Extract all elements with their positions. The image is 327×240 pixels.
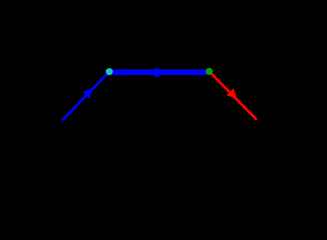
arrowhead on incoming blue segment [82,88,93,99]
node left (cyan dot) [106,68,113,75]
wire: outgoing red diagonal segment [211,73,257,120]
wire: incoming blue diagonal segment [62,74,107,121]
wire: thick horizontal blue segment [109,69,209,75]
arrowhead on outgoing red segment [226,88,237,99]
node right (green dot) [206,68,213,75]
arrowhead on horizontal blue segment [155,67,166,78]
